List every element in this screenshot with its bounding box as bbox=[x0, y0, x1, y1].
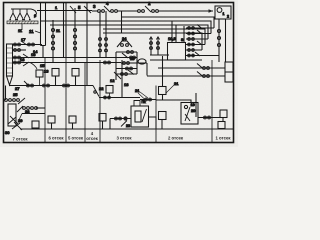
contact row y28 bbox=[186, 25, 214, 29]
wire 7otsek y113.5 bbox=[22, 113, 45, 115]
wire x87 bbox=[86, 3, 88, 86]
lamp bank bus bbox=[11, 8, 31, 10]
wire y100 cell2 bbox=[156, 100, 191, 103]
lamp F cell3 bbox=[159, 112, 167, 120]
top switch cluster 2 bbox=[138, 10, 141, 13]
border frame bbox=[4, 3, 234, 143]
lamp 13 bbox=[36, 70, 43, 77]
divider x66 bbox=[65, 58, 67, 144]
lamp 5otsek bbox=[69, 116, 76, 123]
divider x45 bbox=[44, 58, 46, 144]
contact chain x75 bbox=[74, 29, 77, 32]
box cell2 bbox=[181, 103, 198, 125]
contact dots on bar bbox=[9, 19, 30, 21]
wire x121 top bbox=[121, 11, 123, 33]
top wire y10.5 bbox=[37, 10, 92, 12]
contact row y33.5 bbox=[186, 30, 211, 34]
labels bottom bbox=[12, 131, 231, 142]
long bus y25 bbox=[50, 25, 208, 39]
wire x63 x66 bbox=[64, 3, 67, 58]
lamp cell1 bottom bbox=[222, 118, 224, 122]
wire x75 bbox=[74, 8, 76, 63]
contact row y39 bbox=[186, 38, 208, 40]
contact row y55.5 bbox=[184, 52, 219, 56]
wire y97.5 bbox=[99, 97, 140, 99]
7 otsek cluster bbox=[8, 104, 16, 126]
right tall box bbox=[225, 62, 233, 82]
lamp squares above line y85.5 bbox=[52, 69, 59, 77]
contact row y50 bbox=[184, 49, 202, 51]
wire x225.5 bbox=[225, 19, 227, 62]
wire x122 bbox=[121, 60, 123, 98]
divider x156 bbox=[155, 86, 157, 144]
top switch cluster 4 bbox=[92, 10, 98, 12]
wire x196 bbox=[195, 93, 197, 117]
box PV top right bbox=[215, 6, 231, 19]
junction dot bbox=[123, 116, 127, 120]
wire x163 upper bbox=[162, 56, 164, 87]
lamp 6otsek bbox=[48, 116, 55, 123]
wire x53 bbox=[52, 20, 54, 63]
wire pair x42/46 bbox=[41, 3, 46, 58]
contact chain x53 bbox=[52, 29, 55, 32]
bottom strip line bbox=[20, 128, 233, 130]
squiggle 15 bbox=[30, 63, 37, 70]
blade 23 bbox=[121, 121, 127, 127]
bracket top bbox=[134, 101, 140, 107]
line y67.5 right bbox=[158, 64, 225, 69]
wire y118.5 with dot bbox=[110, 119, 132, 129]
leader 11 bbox=[35, 31, 41, 33]
lamp stub 1 bbox=[10, 9, 16, 19]
lamp 22 bbox=[106, 86, 113, 94]
bus x184 bbox=[183, 26, 185, 44]
row y50 bbox=[12, 49, 26, 51]
feed lines to box bbox=[150, 55, 202, 60]
hatched busbar bbox=[7, 21, 38, 24]
wire to box with arrow bbox=[158, 10, 213, 12]
row y44.5 bbox=[12, 44, 42, 46]
relay box right bbox=[168, 43, 186, 61]
lamp cell1 top bbox=[220, 110, 227, 118]
wire cell2 to cell1 bbox=[198, 117, 223, 119]
divider x212 bbox=[211, 60, 213, 143]
long bus y33 bbox=[103, 33, 202, 50]
wire chain x100 x106 bbox=[100, 11, 106, 58]
bus2 y62.5 bbox=[12, 62, 121, 64]
wire 6 squiggle bbox=[31, 9, 37, 18]
lamp A cell2 bbox=[159, 87, 167, 95]
panel taper bbox=[7, 76, 13, 86]
left panel bbox=[7, 44, 13, 76]
box cell3 bbox=[131, 106, 149, 127]
blade 3 bbox=[84, 6, 91, 13]
chain x219 bbox=[218, 19, 220, 62]
long bus y21 bbox=[41, 21, 212, 34]
cluster tail bbox=[115, 74, 117, 80]
long bus y17 bbox=[121, 17, 214, 28]
vertical chains x151 x158 bbox=[151, 37, 158, 55]
step blade to y97.5 bbox=[93, 86, 99, 97]
line y85.5 bbox=[9, 85, 93, 87]
wire y99.5 bbox=[140, 99, 156, 101]
line y75.5 right bbox=[147, 72, 225, 77]
lamp 7otsek bbox=[32, 121, 39, 128]
blade 12 bbox=[114, 72, 121, 79]
divider x100 bbox=[99, 60, 101, 143]
blade 5 bbox=[70, 6, 76, 13]
contact pair bus2 bbox=[104, 61, 107, 64]
lamp stub 2 bbox=[17, 9, 23, 19]
wire top mid bbox=[117, 10, 138, 12]
contact row y44.5 bbox=[184, 41, 205, 45]
lamp stub 3 bbox=[24, 9, 30, 19]
divider x85 bbox=[84, 63, 86, 144]
center cluster bbox=[117, 41, 132, 47]
long bus y29 bbox=[103, 29, 205, 45]
bus1 y57.5 bbox=[12, 57, 121, 59]
nest left drops bbox=[172, 21, 176, 44]
lamp 3otsek left bbox=[99, 114, 106, 122]
